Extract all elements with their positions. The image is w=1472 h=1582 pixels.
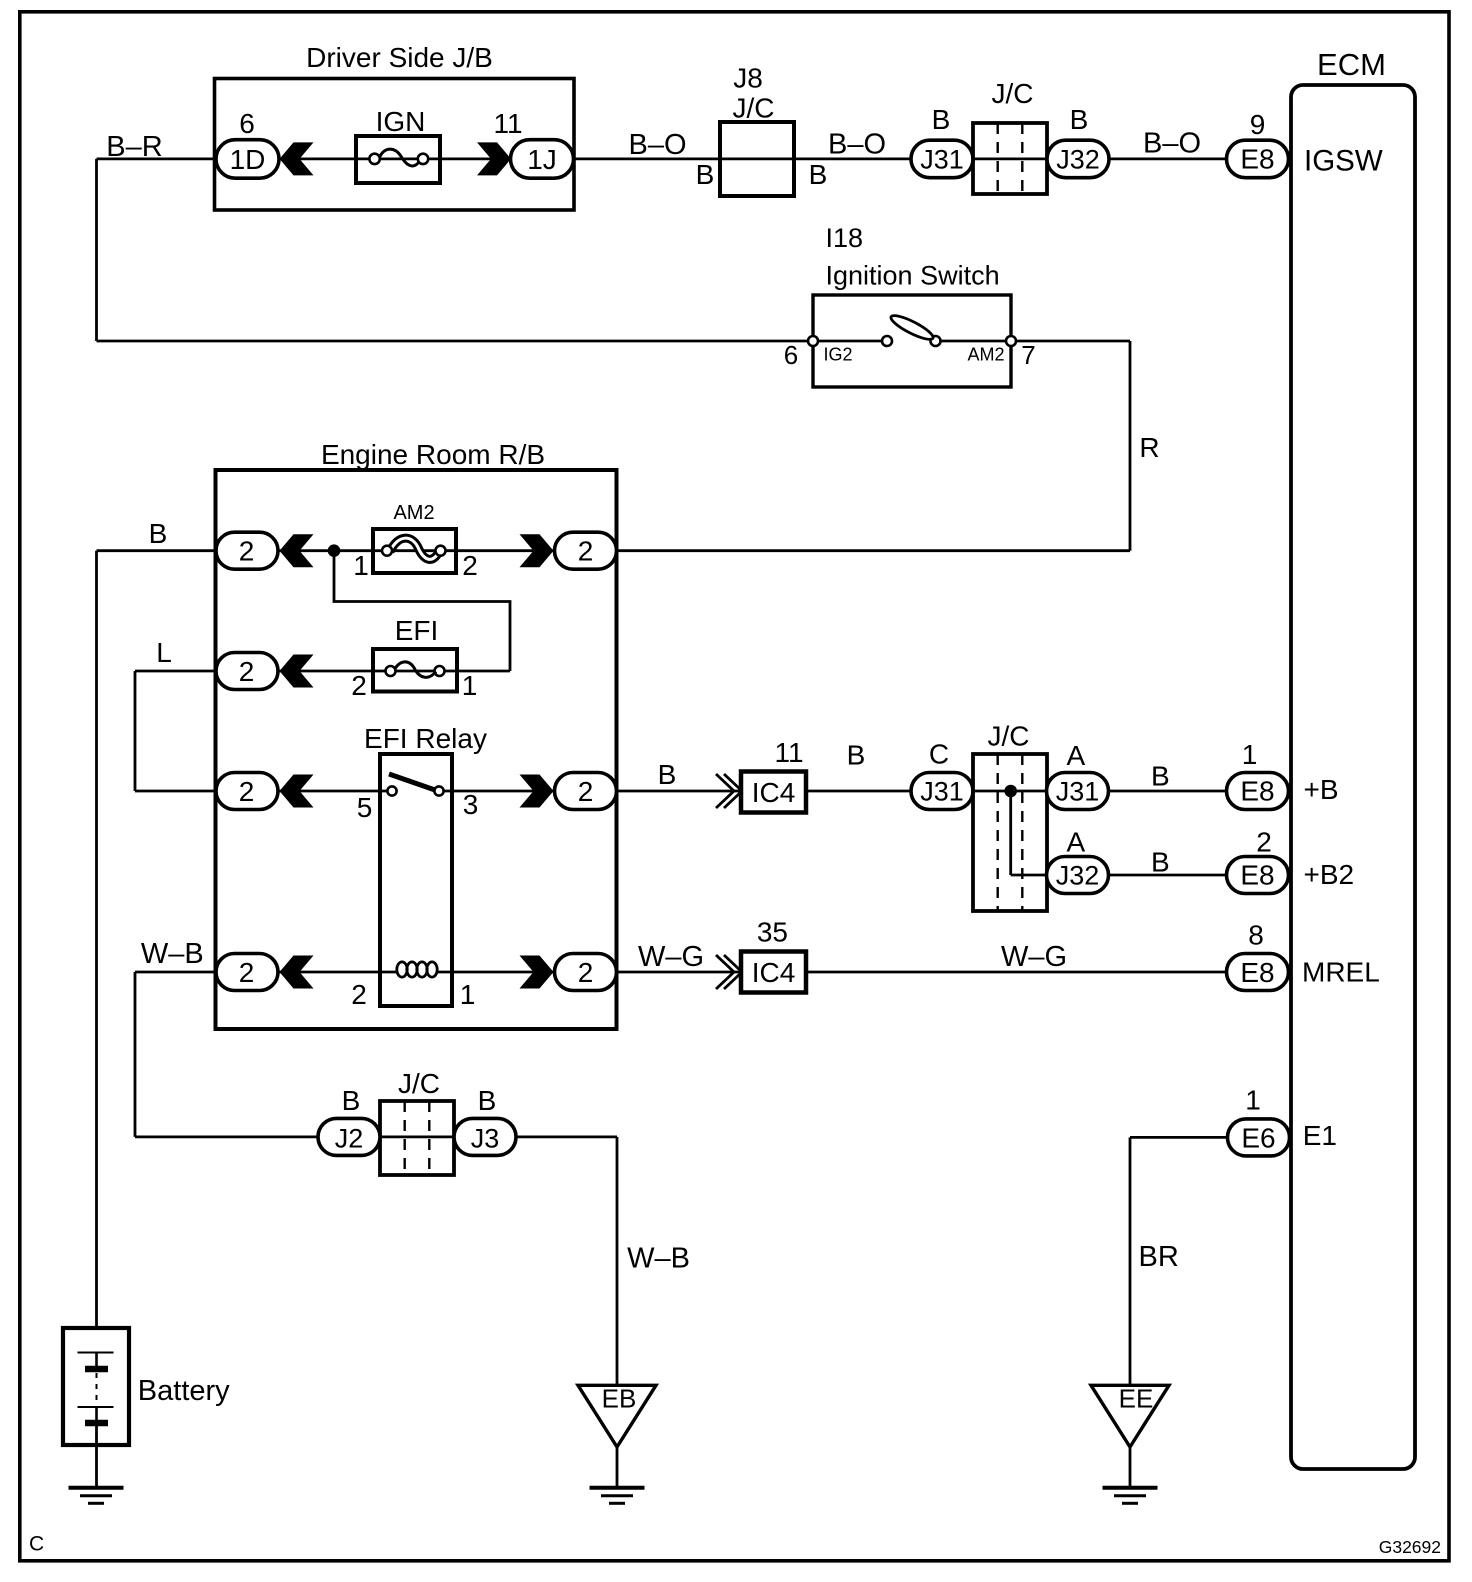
svg-text:IGN: IGN (376, 106, 426, 137)
svg-text:1: 1 (462, 670, 478, 701)
wire B from relay pin 3 to IC4 terminal 11 (439, 790, 741, 793)
wire node 1 to AM2 fuse to node 2 inside Engine Room R/B (280, 549, 556, 552)
connector 2 (EFI row) (216, 653, 278, 690)
svg-text:6: 6 (239, 108, 255, 139)
svg-text:EFI: EFI (395, 615, 439, 646)
svg-text:J8: J8 (733, 63, 763, 94)
wire B-R horizontal from left drop to 1D (97, 157, 217, 160)
arrowhead out of coil row (520, 956, 554, 989)
svg-text:11: 11 (774, 737, 803, 768)
fuse IGN (356, 136, 440, 183)
wire BR vertical down to ground EE (1129, 1137, 1132, 1385)
wire B from J32 to E8 pin 2 (+B2) (1109, 874, 1227, 877)
wire jog from AM2 fuse node to EFI fuse pin 1 (334, 551, 510, 671)
svg-text:Battery: Battery (138, 1375, 230, 1407)
ground EB (578, 1385, 656, 1447)
svg-text:B: B (1070, 104, 1089, 135)
Engine Room R/B box (216, 470, 617, 1029)
svg-text:35: 35 (757, 917, 788, 948)
wire EB triangle stem (616, 1447, 619, 1488)
svg-text:AM2: AM2 (393, 502, 434, 524)
wire B-O through junction connector (973, 157, 1047, 160)
svg-text:Driver Side J/B: Driver Side J/B (306, 42, 493, 73)
svg-text:J/C: J/C (992, 78, 1034, 109)
wire B from IC4 to E8 pin 1 (+B) (806, 790, 1227, 793)
svg-text:B: B (847, 740, 866, 771)
arrowhead into 2 (relay switch row) (280, 775, 314, 808)
svg-text:ECM: ECM (1317, 47, 1386, 82)
svg-text:E8: E8 (1240, 776, 1274, 807)
svg-text:8: 8 (1248, 920, 1264, 951)
svg-text:IC4: IC4 (752, 957, 796, 988)
svg-text:2: 2 (462, 550, 478, 581)
svg-text:7: 7 (1021, 340, 1035, 370)
arrowhead into 2 (coil row) (280, 956, 314, 989)
svg-text:EFI Relay: EFI Relay (364, 723, 487, 754)
svg-text:R: R (1139, 432, 1159, 463)
arrowhead into 1D (280, 142, 314, 175)
connector 2 (relay switch row, right) (555, 773, 617, 810)
junction node inside J/C (1004, 785, 1017, 798)
ground EE (1091, 1385, 1169, 1447)
svg-text:B–R: B–R (106, 131, 162, 163)
svg-text:B: B (342, 1085, 361, 1116)
svg-text:W–B: W–B (141, 938, 204, 970)
svg-text:B: B (1151, 761, 1170, 792)
shield chevrons into IC4 (row +B) (716, 774, 734, 808)
battery (63, 1328, 129, 1445)
wire B-O from 1J through J8 J/C to J31 (720, 157, 911, 160)
arrowhead out of relay switch row (520, 775, 554, 808)
svg-text:Engine Room R/B: Engine Room R/B (321, 439, 545, 470)
wire EE triangle stem (1129, 1447, 1132, 1488)
svg-text:J2: J2 (335, 1123, 364, 1153)
svg-text:A: A (1066, 827, 1085, 858)
svg-text:IG2: IG2 (824, 345, 853, 365)
svg-text:W–G: W–G (638, 941, 704, 973)
svg-text:B: B (1151, 847, 1170, 878)
svg-text:MREL: MREL (1302, 957, 1380, 988)
svg-text:EB: EB (602, 1384, 637, 1414)
wire battery positive vertical (95, 551, 98, 1329)
svg-text:B–O: B–O (828, 129, 886, 161)
wire battery negative to ground (95, 1426, 98, 1488)
svg-text:G32692: G32692 (1379, 1537, 1441, 1557)
svg-text:J/C: J/C (398, 1068, 440, 1099)
svg-text:A: A (1066, 740, 1085, 771)
wire W-B through J2 / junction connector / J3 (135, 1136, 617, 1139)
svg-text:J31: J31 (920, 145, 964, 175)
wire B-R vertical drop at left (95, 159, 98, 341)
wire L from drop through EFI fuse row (135, 670, 510, 673)
wire W-B down to ground EB (616, 1137, 619, 1385)
wire from engine-room R/B to R drop (617, 549, 1131, 552)
svg-text:1: 1 (460, 979, 476, 1010)
arrowhead into 1J (477, 142, 511, 175)
svg-text:2: 2 (578, 957, 594, 988)
svg-text:J32: J32 (1056, 145, 1100, 175)
svg-text:B: B (809, 159, 828, 190)
wire W-B into relay coil pin 2 (135, 971, 396, 974)
wire W-G from relay coil pin 1 to IC4 terminal 35 (436, 971, 741, 974)
arrowhead into 2 (EFI row) (280, 655, 314, 688)
arrowhead out of AM2 row (520, 534, 554, 567)
svg-text:J3: J3 (471, 1123, 500, 1153)
svg-text:W–B: W–B (627, 1243, 690, 1275)
svg-text:BR: BR (1139, 1241, 1179, 1273)
ground (battery) (69, 1486, 124, 1490)
Driver Side J/B box (215, 79, 575, 211)
wire from drop to ignition switch pin 6 / IG2 contact (97, 340, 888, 343)
svg-text:1J: 1J (527, 144, 557, 175)
EFI relay coil (397, 962, 407, 977)
svg-text:B–O: B–O (628, 129, 686, 161)
svg-text:+B2: +B2 (1304, 859, 1355, 890)
svg-text:2: 2 (239, 957, 255, 988)
svg-text:E8: E8 (1240, 144, 1274, 175)
connector 2 (AM2 row, left) (216, 532, 278, 569)
svg-text:2: 2 (351, 670, 367, 701)
svg-text:B: B (696, 159, 715, 190)
svg-text:Ignition Switch: Ignition Switch (826, 261, 1000, 291)
wire W-G from IC4 to E8 pin 8 (MREL) (806, 971, 1227, 974)
svg-text:B: B (658, 759, 677, 790)
svg-text:+B: +B (1304, 774, 1339, 805)
ECM module box (1291, 85, 1415, 1469)
svg-text:E6: E6 (1241, 1122, 1275, 1153)
svg-text:J/C: J/C (733, 93, 775, 124)
svg-text:J31: J31 (1056, 777, 1100, 807)
svg-text:L: L (156, 637, 172, 668)
svg-text:1: 1 (1242, 739, 1258, 770)
svg-text:AM2: AM2 (967, 345, 1004, 365)
svg-text:B–O: B–O (1143, 128, 1201, 160)
svg-text:9: 9 (1250, 109, 1266, 140)
connector 2 (AM2 row, right) (555, 532, 617, 569)
svg-text:B: B (478, 1085, 497, 1116)
wire W-B vertical drop to junction row (134, 972, 137, 1137)
svg-text:IGSW: IGSW (1304, 145, 1383, 178)
svg-text:B: B (932, 104, 951, 135)
svg-text:2: 2 (578, 536, 594, 567)
svg-text:E1: E1 (1303, 1120, 1337, 1151)
svg-text:EE: EE (1119, 1384, 1154, 1414)
svg-text:2: 2 (239, 776, 255, 807)
svg-text:3: 3 (463, 789, 479, 820)
junction node at AM2 fuse pin 1 (328, 544, 341, 557)
svg-text:5: 5 (357, 792, 373, 823)
svg-text:6: 6 (784, 340, 798, 370)
svg-text:1D: 1D (230, 144, 266, 175)
svg-text:11: 11 (493, 108, 522, 139)
wire B-O from J32 to E8 pin 9 (1109, 157, 1227, 160)
svg-text:E8: E8 (1240, 860, 1274, 891)
svg-text:J/C: J/C (988, 721, 1030, 752)
connector 2 (relay switch row, left) (216, 773, 278, 810)
svg-text:2: 2 (578, 776, 594, 807)
wire L vertical loop (134, 671, 137, 791)
svg-text:I18: I18 (826, 223, 864, 253)
wire BR from drop to E6 pin 1 (E1) (1130, 1136, 1290, 1139)
wire B from battery drop to engine-room connector 2 (97, 549, 217, 552)
svg-text:2: 2 (351, 979, 367, 1010)
svg-text:J32: J32 (1056, 861, 1100, 891)
wire inside Driver Side J/B: 1D through IGN fuse to 1J (280, 157, 721, 160)
svg-text:W–G: W–G (1001, 941, 1067, 973)
svg-text:C: C (29, 1533, 44, 1556)
wire from ignition switch AM2 contact to pin 7 and right (936, 340, 1131, 343)
svg-text:2: 2 (239, 536, 255, 567)
svg-text:C: C (929, 739, 949, 770)
arrowhead into 2 (AM2 row) (280, 534, 314, 567)
svg-text:1: 1 (1245, 1085, 1261, 1116)
connector 2 (coil row, left) (216, 954, 278, 991)
svg-text:2: 2 (1256, 827, 1272, 858)
wire branch inside junction connector down to J32 (1009, 791, 1012, 875)
connector 2 (coil row, right) (555, 954, 617, 991)
shield chevrons into IC4 (row MREL) (716, 955, 734, 989)
svg-text:2: 2 (239, 656, 255, 687)
wire R vertical drop from pin 7 (1129, 341, 1132, 551)
svg-text:B: B (149, 518, 168, 549)
svg-text:E8: E8 (1240, 957, 1274, 988)
svg-text:J31: J31 (920, 777, 964, 807)
EFI relay switch contacts and lever (387, 786, 396, 795)
svg-text:IC4: IC4 (752, 777, 796, 808)
svg-text:1: 1 (353, 550, 369, 581)
wire into EFI relay pin 5 (135, 790, 392, 793)
